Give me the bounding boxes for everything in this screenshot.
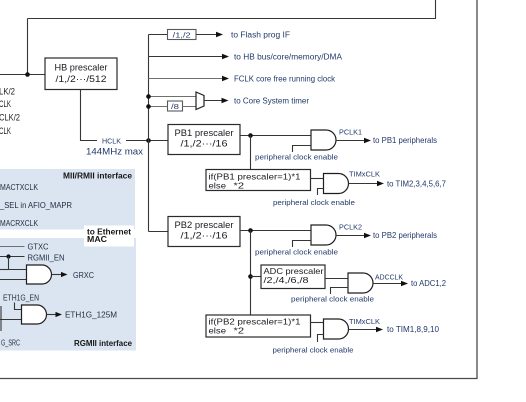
and-gate TIMxCLK PB1 [324, 174, 349, 194]
box PB1 prescaler [168, 125, 240, 155]
wire arrow GRXC [52, 274, 63, 276]
wire top feedback horizontal [28, 0, 436, 19]
wire arrow TIMxCLK PB1 [349, 183, 379, 185]
wire GTXC [0, 246, 25, 248]
svg-text:HCLK: HCLK [102, 137, 121, 146]
svg-text:to TIM2,3,4,5,6,7: to TIM2,3,4,5,6,7 [387, 179, 447, 188]
wire bus corner into PB2 [149, 231, 169, 233]
svg-text:to HB bus/core/memory/DMA: to HB bus/core/memory/DMA [234, 52, 343, 61]
panel RGMII interface [0, 238, 136, 351]
node RGMII_EN junction [6, 254, 10, 258]
svg-text:MII/RMII interface: MII/RMII interface [63, 171, 133, 180]
svg-text:GTXC: GTXC [28, 242, 49, 251]
node ADC junction [248, 274, 253, 279]
wire enable TIMx PB1 [318, 189, 324, 196]
wire enable PCLK1 [293, 146, 312, 153]
svg-text:CLK/2: CLK/2 [0, 113, 20, 123]
box PB2 prescaler [168, 217, 240, 247]
svg-text:ETH1G_EN: ETH1G_EN [3, 293, 39, 302]
svg-text:/1,/2: /1,/2 [173, 32, 191, 39]
svg-text:PCLK2: PCLK2 [339, 222, 362, 231]
wire down to ADC and if PB2 [250, 231, 252, 316]
svg-text:TIMxCLK: TIMxCLK [349, 169, 380, 178]
svg-text:to Core System timer: to Core System timer [234, 96, 309, 105]
box ADC prescaler [261, 265, 325, 289]
svg-text:LK/2: LK/2 [0, 86, 15, 96]
box if PB2 prescaler [206, 315, 311, 337]
svg-text:to TIM1,8,9,10: to TIM1,8,9,10 [387, 325, 440, 334]
svg-text:PCLK1: PCLK1 [339, 127, 362, 136]
node PB1 output junction [248, 133, 253, 138]
wire stub left [0, 306, 2, 331]
wire PB2 output [240, 230, 311, 232]
wire enable ADC [331, 288, 349, 295]
svg-text:peripheral clock enable: peripheral clock enable [291, 295, 374, 304]
wire arrow to HB bus [149, 56, 224, 58]
node PB2 output junction [248, 228, 253, 233]
node junction at HB input [25, 72, 30, 77]
svg-text:to PB2 peripherals: to PB2 peripherals [373, 231, 437, 240]
svg-text:FCLK core free running clock: FCLK core free running clock [234, 74, 336, 83]
svg-text:CLK: CLK [0, 99, 11, 109]
svg-text:MACTXCLK: MACTXCLK [0, 183, 39, 192]
wire arrow TIMxCLK PB2 [349, 329, 378, 331]
node junction /8 [146, 104, 151, 109]
and-gate PCLK2 [311, 225, 336, 245]
wire ADC to gate [325, 278, 348, 280]
and-gate PCLK1 [311, 130, 336, 150]
svg-text:*2: *2 [234, 180, 245, 190]
svg-text:G_SRC: G_SRC [1, 338, 20, 347]
wire if PB2 to gate [311, 322, 324, 324]
wire ETH1G_EN to gate [15, 303, 22, 310]
box /8 divider [168, 101, 183, 111]
wire gate2 bottom input [0, 319, 22, 321]
frame right border [476, 0, 478, 379]
svg-text:MAC: MAC [87, 235, 107, 244]
svg-text:RGMII interface: RGMII interface [74, 339, 133, 348]
mux selector trapezoid [196, 92, 204, 110]
wire down to if PB1 box [250, 136, 252, 170]
svg-text:PB2 prescaler: PB2 prescaler [175, 220, 234, 231]
svg-text:to ADC1,2: to ADC1,2 [411, 279, 447, 288]
box if PB1 prescaler [206, 170, 311, 191]
svg-text:/1,/2···/16: /1,/2···/16 [181, 139, 228, 150]
svg-text:ADCCLK: ADCCLK [375, 272, 403, 281]
wire branch to /1,/2 box [149, 34, 168, 36]
label to Ethernet MAC [84, 226, 134, 247]
wire arrow to Core System timer [204, 100, 223, 102]
wire arrow PCLK2 out [336, 235, 365, 237]
box /1,/2 divider [168, 30, 197, 40]
node junction mux top [146, 94, 151, 99]
svg-text:TIMxCLK: TIMxCLK [349, 317, 380, 326]
box HB prescaler [45, 58, 117, 90]
svg-text:peripheral clock enable: peripheral clock enable [273, 198, 355, 207]
wire PB1 output [240, 135, 311, 137]
wire HCLK vertical bus [148, 35, 150, 232]
svg-text:GRXC: GRXC [73, 271, 94, 280]
svg-text:CLK: CLK [0, 126, 11, 136]
svg-text:peripheral clock enable: peripheral clock enable [255, 248, 338, 257]
and-gate TIMxCLK PB2 [324, 319, 349, 339]
svg-text:_SEL in AFIO_MAPR: _SEL in AFIO_MAPR [0, 201, 72, 210]
svg-text:/2,/4,/6,/8: /2,/4,/6,/8 [264, 275, 309, 285]
svg-text:peripheral clock enable: peripheral clock enable [255, 153, 338, 162]
wire HCLK to bus [126, 140, 168, 142]
svg-text:/1,/2···/16: /1,/2···/16 [181, 231, 228, 242]
svg-text:HB prescaler: HB prescaler [55, 63, 108, 74]
wire into /8 [149, 106, 168, 108]
wire arrow ADCCLK [373, 283, 402, 285]
svg-text:PB1 prescaler: PB1 prescaler [175, 128, 234, 139]
svg-text:peripheral clock enable: peripheral clock enable [273, 346, 354, 355]
and-gate ETH1G [22, 305, 47, 324]
wire HB output down-right (HCLK) [81, 90, 98, 141]
wire if PB1 to gate [311, 178, 324, 180]
wire vertical drop to HB input [27, 19, 29, 75]
svg-text:to Flash prog IF: to Flash prog IF [231, 30, 290, 39]
wire arrow FCLK [149, 78, 224, 80]
wire HB prescaler input [0, 74, 45, 76]
and-gate GRXC [27, 265, 52, 284]
frame bottom border [0, 378, 478, 380]
wire /8 to mux [183, 106, 197, 108]
wire enable PCLK2 [293, 241, 312, 248]
node HCLK junction [146, 138, 151, 143]
wire RGMII_EN down to gate [9, 257, 27, 270]
wire arrow PCLK1 out [336, 140, 365, 142]
and-gate ADCCLK [348, 273, 373, 293]
svg-text:MACRXCLK: MACRXCLK [0, 219, 39, 228]
wire mux input direct [149, 96, 197, 98]
svg-text:/8: /8 [171, 104, 179, 111]
svg-text:RGMII_EN: RGMII_EN [28, 253, 65, 262]
svg-text:144MHz max: 144MHz max [86, 147, 143, 158]
wire GRXC gate top input [0, 269, 9, 271]
svg-text:else: else [209, 180, 227, 190]
wire RGMII_EN [0, 256, 25, 258]
svg-text:else: else [209, 325, 227, 335]
wire to ADC box [251, 276, 262, 278]
svg-text:/1,/2···/512: /1,/2···/512 [56, 74, 107, 85]
svg-text:*2: *2 [234, 325, 245, 335]
svg-text:to PB1 peripherals: to PB1 peripherals [373, 136, 437, 145]
wire arrow to Flash prog IF [196, 34, 217, 36]
wire GRXC gate bottom input [0, 279, 27, 281]
panel MII/RMII interface [0, 169, 135, 230]
wire arrow ETH1G_125M [47, 314, 57, 316]
wire enable TIMx PB2 [318, 335, 324, 343]
svg-text:ETH1G_125M: ETH1G_125M [65, 310, 117, 319]
